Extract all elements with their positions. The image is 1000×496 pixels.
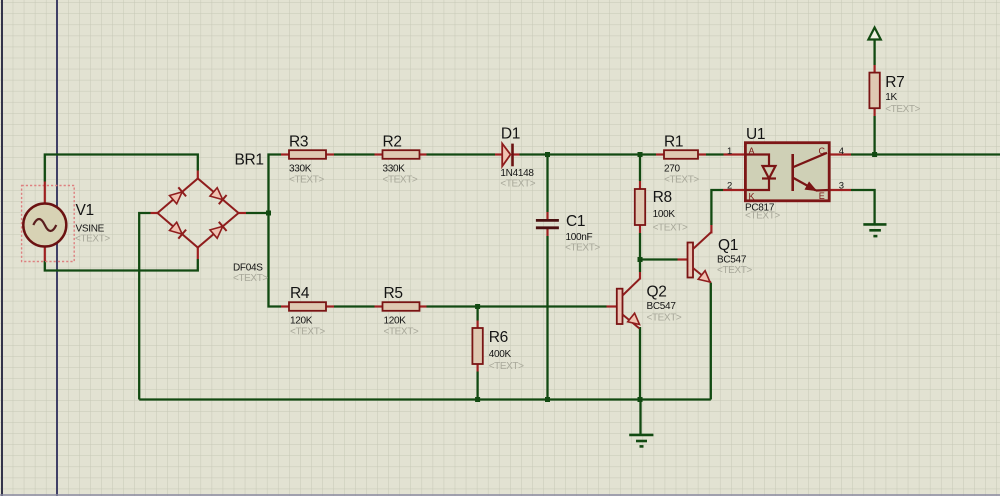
resistor R7 xyxy=(869,65,879,116)
svg-text:R2: R2 xyxy=(383,134,402,151)
svg-text:<TEXT>: <TEXT> xyxy=(489,361,524,372)
svg-text:Q2: Q2 xyxy=(647,284,667,301)
svg-text:R4: R4 xyxy=(290,285,310,302)
svg-text:<TEXT>: <TEXT> xyxy=(384,327,419,338)
wire: D1 to R1 xyxy=(520,153,657,155)
svg-text:<TEXT>: <TEXT> xyxy=(500,179,535,190)
resistor R3 xyxy=(281,150,334,159)
svg-text:Q1: Q1 xyxy=(718,237,738,254)
resistor R2 xyxy=(375,150,427,159)
wire: U1 pin 2 to Q1 collector xyxy=(711,190,723,225)
junction: R8 top node xyxy=(638,152,643,157)
svg-text:330K: 330K xyxy=(289,164,312,175)
svg-text:3: 3 xyxy=(839,181,844,192)
wire: U1 pin 4 to right edge xyxy=(851,153,1000,155)
svg-text:270: 270 xyxy=(664,164,681,175)
wire: V1 top to bridge top vertex xyxy=(45,155,198,182)
resistor R1 xyxy=(656,150,706,159)
wire: Q1 emitter to rail xyxy=(710,283,712,400)
svg-text:<TEXT>: <TEXT> xyxy=(717,265,752,276)
svg-text:<TEXT>: <TEXT> xyxy=(290,327,325,338)
diode D1 xyxy=(495,144,520,167)
svg-text:2: 2 xyxy=(727,181,732,192)
svg-text:R8: R8 xyxy=(653,189,672,206)
svg-text:BR1: BR1 xyxy=(235,152,264,169)
svg-text:<TEXT>: <TEXT> xyxy=(383,175,418,186)
wire: R1 to U1 pin 1 xyxy=(706,153,724,155)
svg-text:330K: 330K xyxy=(383,164,406,175)
svg-text:U1: U1 xyxy=(746,126,765,143)
transistor Q2 xyxy=(607,272,641,329)
svg-text:E: E xyxy=(819,191,825,201)
svg-text:<TEXT>: <TEXT> xyxy=(664,175,699,186)
svg-text:D1: D1 xyxy=(501,126,520,143)
wire: C1 bottom to rail xyxy=(546,236,548,400)
wire: R6 bottom to rail xyxy=(476,372,478,400)
svg-text:100nF: 100nF xyxy=(566,232,593,243)
optocoupler U1 xyxy=(723,143,851,201)
resistor R5 xyxy=(375,302,427,311)
wire: node down to R4 xyxy=(269,213,282,307)
svg-text:4: 4 xyxy=(839,146,844,157)
ground symbol right (under U1 pin 3) xyxy=(863,224,886,236)
voltage source V1 xyxy=(22,182,75,262)
svg-text:1N4148: 1N4148 xyxy=(500,168,534,179)
svg-text:BC547: BC547 xyxy=(647,301,677,312)
svg-text:1K: 1K xyxy=(885,92,897,103)
svg-text:<TEXT>: <TEXT> xyxy=(289,175,324,186)
junction: bridge output node xyxy=(266,211,271,216)
junction: R6 top node xyxy=(475,304,480,309)
wire: R7 bottom to pin 4 net xyxy=(873,116,875,155)
svg-text:<TEXT>: <TEXT> xyxy=(885,104,920,115)
wire: R4 to R5 xyxy=(334,305,375,307)
svg-text:<TEXT>: <TEXT> xyxy=(233,273,268,284)
junction: R8 bottom / Q1 base node xyxy=(638,257,643,262)
svg-text:<TEXT>: <TEXT> xyxy=(653,223,688,234)
wire: C1 top branch xyxy=(546,155,548,213)
wire: bridge right vertex to node xyxy=(246,212,269,214)
wire: bottom ground rail xyxy=(139,398,711,400)
svg-text:400K: 400K xyxy=(489,349,512,360)
svg-text:R5: R5 xyxy=(384,285,403,302)
svg-text:R3: R3 xyxy=(289,134,308,151)
wire: Q2 collector riser xyxy=(639,260,641,273)
svg-text:<TEXT>: <TEXT> xyxy=(75,234,110,245)
svg-text:1: 1 xyxy=(727,146,732,157)
svg-text:R7: R7 xyxy=(885,74,904,91)
svg-text:DF04S: DF04S xyxy=(233,263,263,274)
resistor R4 xyxy=(281,302,334,311)
wire: R8 bottom to node xyxy=(639,233,641,260)
svg-text:<TEXT>: <TEXT> xyxy=(647,313,682,324)
junction: R7 output node xyxy=(872,152,877,157)
resistor R8 xyxy=(635,181,645,233)
wire: node to Q1 base xyxy=(640,258,678,260)
power symbol (VCC arrow) xyxy=(868,28,880,40)
wire: Q2 emitter to rail xyxy=(639,327,641,400)
capacitor C1 xyxy=(536,212,559,236)
wire: R2 to D1 xyxy=(427,153,496,155)
wire: power arrow to R7 xyxy=(873,28,875,65)
wire: V1 bottom to bridge bottom vertex xyxy=(45,259,198,271)
svg-text:120K: 120K xyxy=(384,316,407,327)
svg-text:C: C xyxy=(819,146,826,156)
svg-text:<TEXT>: <TEXT> xyxy=(565,243,600,254)
svg-text:A: A xyxy=(749,146,755,156)
junction: C1 bottom on rail xyxy=(545,397,550,402)
wire: bridge left vertex to ground rail xyxy=(139,213,150,400)
svg-text:R6: R6 xyxy=(489,329,508,346)
svg-text:R1: R1 xyxy=(664,134,683,151)
svg-text:K: K xyxy=(749,192,755,202)
svg-text:BC547: BC547 xyxy=(717,255,747,266)
junction: R6 bottom on rail xyxy=(475,397,480,402)
wire: R5 to Q2 base xyxy=(427,305,607,307)
svg-text:120K: 120K xyxy=(290,316,313,327)
wire: node up to R3 xyxy=(269,155,282,214)
wire: R8 top branch xyxy=(639,155,641,182)
transistor Q1 xyxy=(678,225,712,283)
bridge rectifier BR1 xyxy=(151,171,247,260)
wire: R6 top branch xyxy=(476,307,478,321)
svg-text:<TEXT>: <TEXT> xyxy=(745,211,780,222)
junction: Q2 emitter / ground on rail xyxy=(638,397,643,402)
junction: C1 top node xyxy=(545,152,550,157)
svg-text:C1: C1 xyxy=(566,213,585,230)
svg-text:100K: 100K xyxy=(653,209,676,220)
resistor R6 xyxy=(472,321,482,372)
wire: R3 to R2 xyxy=(334,153,375,155)
svg-text:V1: V1 xyxy=(76,202,94,219)
ground symbol bottom (Q2 emitter) xyxy=(629,400,653,447)
wire: U1 pin 3 to ground xyxy=(851,190,875,224)
